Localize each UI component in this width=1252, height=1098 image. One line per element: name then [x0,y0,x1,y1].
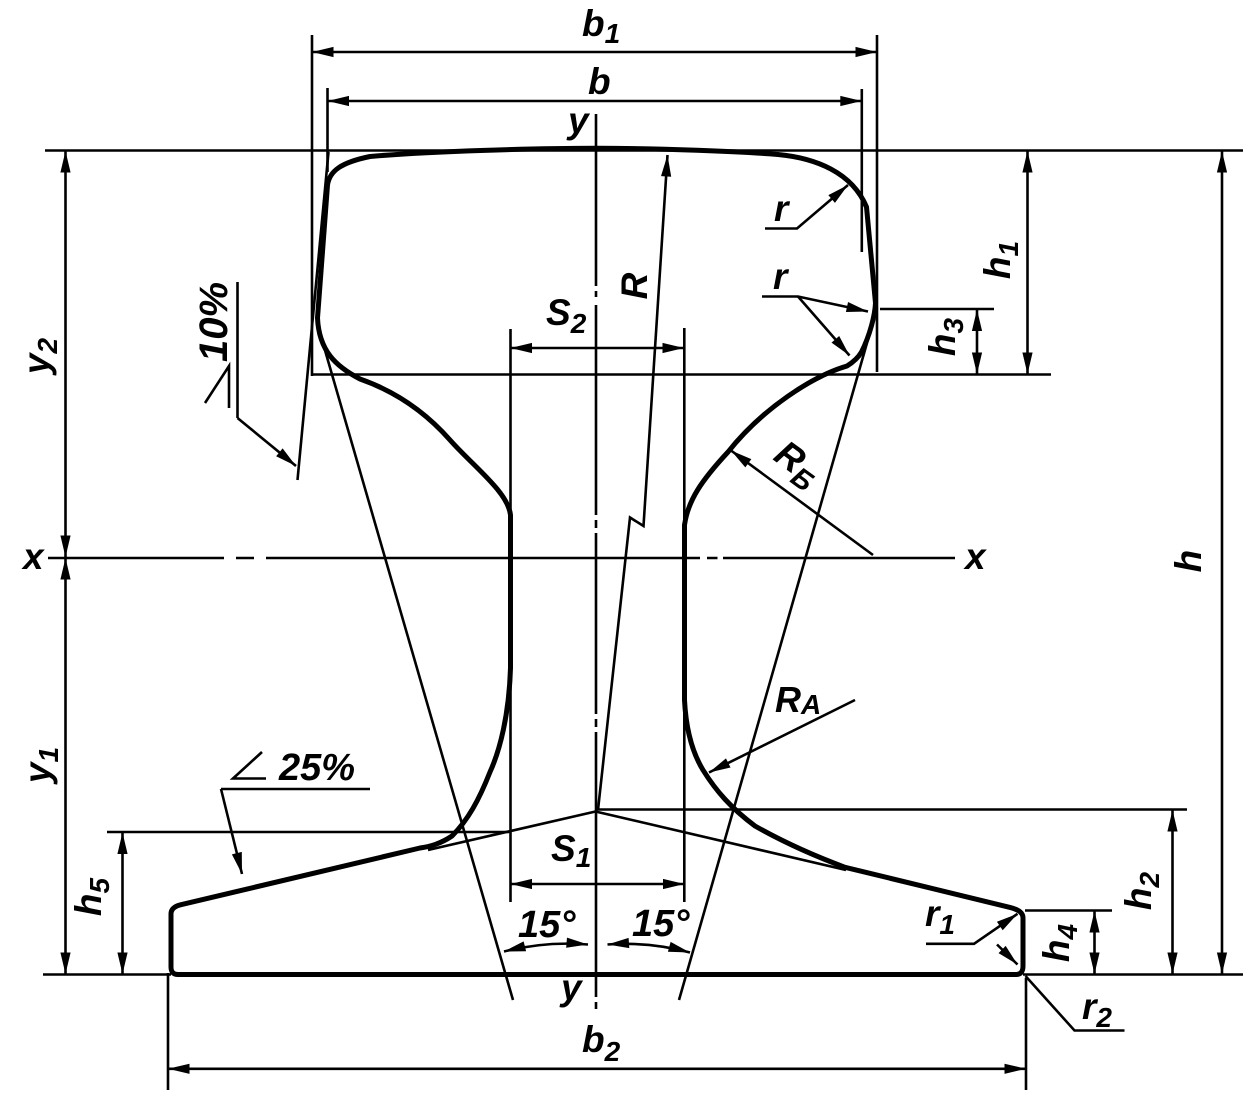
h3 dimension line [976,310,979,375]
R_B leader [731,451,873,556]
r2 underline and leader [1026,976,1125,1031]
b2 extension left [167,973,170,1090]
10% underline (rotated) [236,282,239,418]
r1 underline and leader [926,914,1018,944]
construction line A left [320,333,513,1000]
R radius line with zigzag [598,155,668,810]
b extension left [326,88,329,172]
svg-text:y: y [566,100,591,141]
x axis (dash-dot) [48,557,955,560]
top-of-head horizontal line [45,149,1243,152]
r second leader arrow2 [798,297,850,356]
b1 dimension line [312,51,877,54]
svg-text:h: h [1168,550,1209,573]
h5 top extension line [107,831,510,834]
h dimension line [1221,151,1224,974]
S2/S1 extension right [683,328,686,902]
right 25% slope extension line [596,812,847,871]
svg-text:10%: 10% [192,282,236,362]
rail profile outline [171,148,1023,974]
r top underline and leader [765,185,848,229]
25% angle symbol [233,752,266,779]
b1 extension left [311,35,314,376]
r1 inner arrow to bottom corner [997,945,1018,965]
svg-text:x: x [963,536,987,577]
h3 top extension line [880,308,994,311]
h2 dimension line [1171,810,1174,974]
25% underline [221,788,370,791]
b1 extension right [876,35,879,372]
h4 dimension line [1093,911,1096,974]
S2/S1 extension left [509,329,512,902]
10% leader [238,418,297,466]
h2 top extension line [596,808,1188,811]
bottom-of-head horizontal line [312,373,1051,376]
r second underline and leader arrow1 [762,297,868,312]
S1 dimension line [511,883,685,886]
bottom extension line left [43,973,171,976]
y2 y1 dimension line [64,151,67,557]
svg-text:15°: 15° [518,904,576,946]
S2 dimension line [511,347,685,350]
svg-text:b: b [588,61,611,102]
left 25% slope extension line [428,812,596,851]
h1 dimension line [1026,151,1029,374]
b dimension line [328,100,862,103]
h5 dimension line [121,833,124,975]
bottom extension line right [1023,973,1243,976]
25% leader [221,789,242,874]
y axis center line (dash-dot) [595,114,598,1009]
10% angle symbol (rotated) [205,366,229,408]
10% slope construction line [298,152,329,480]
15 deg arc right [608,944,691,953]
y1 dimension line [64,558,67,974]
construction line B right [679,308,877,1000]
svg-text:25%: 25% [278,747,355,789]
h4 top extension line [1025,909,1112,912]
b extension right [860,89,863,252]
15 deg arc left [504,944,588,952]
b2 dimension line [168,1068,1026,1071]
svg-text:y: y [559,967,584,1008]
svg-text:x: x [21,536,45,577]
svg-text:15°: 15° [632,903,690,945]
R_A leader [709,700,855,773]
b2 extension right [1025,978,1028,1090]
svg-text:R: R [614,272,655,299]
